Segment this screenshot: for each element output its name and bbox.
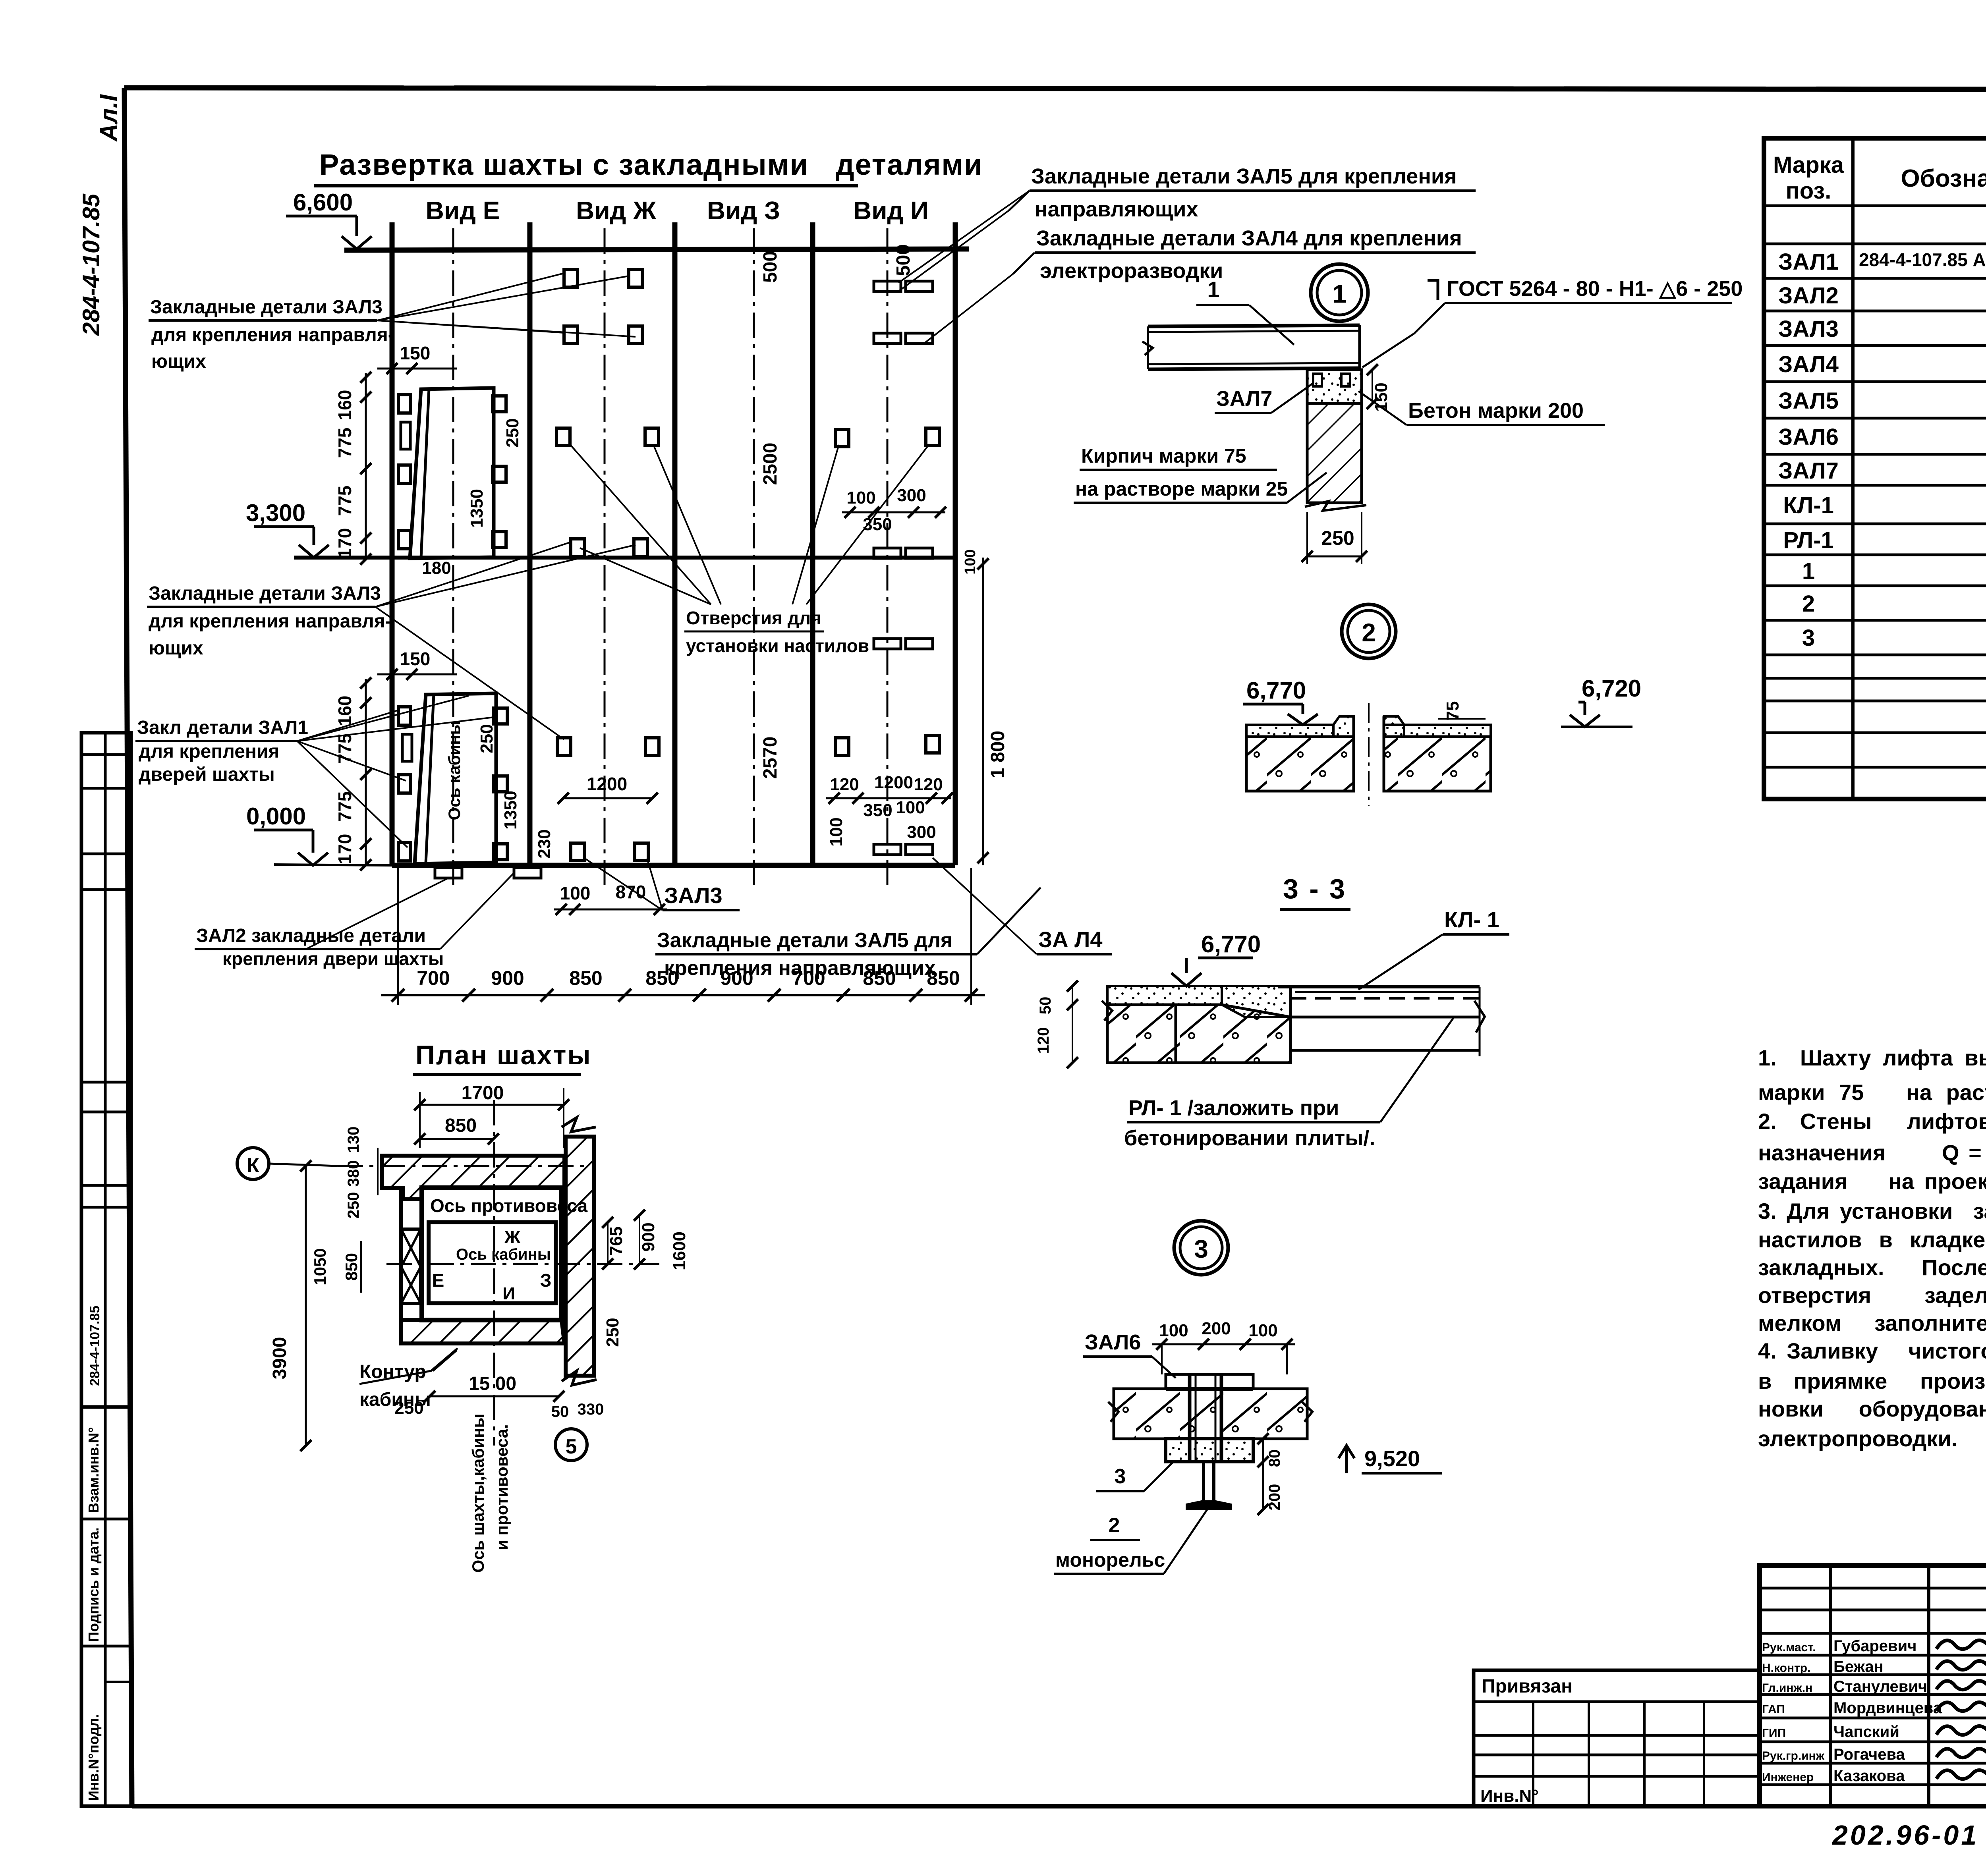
svg-text:150: 150 xyxy=(400,648,431,669)
I-beam monorail xyxy=(1202,1462,1205,1501)
svg-text:2: 2 xyxy=(1802,591,1815,617)
sheet frame xyxy=(124,88,1986,90)
plan dim 3900 xyxy=(305,1166,307,1446)
view E lower door xyxy=(415,693,496,864)
svg-text:ЗАЛ3: ЗАЛ3 xyxy=(664,883,723,908)
svg-text:130: 130 xyxy=(345,1127,362,1153)
svg-text:3: 3 xyxy=(1115,1465,1126,1488)
svg-text:850: 850 xyxy=(342,1253,361,1281)
svg-text:бетонировании плиты/.: бетонировании плиты/. xyxy=(1124,1126,1375,1150)
svg-text:6,770: 6,770 xyxy=(1201,931,1261,957)
embed detail squares: view E upper door (ЗАЛ1/ЗАЛ2) xyxy=(410,388,494,558)
svg-text:75: 75 xyxy=(1443,701,1462,721)
svg-text:870: 870 xyxy=(616,882,646,902)
svg-text:Рук.гр.инж: Рук.гр.инж xyxy=(1762,1749,1825,1762)
plan axes xyxy=(338,1165,584,1167)
svg-text:Ж: Ж xyxy=(504,1228,520,1247)
svg-text:для крепления направля-: для крепления направля- xyxy=(149,611,392,632)
svg-text:Вид З: Вид З xyxy=(707,196,780,225)
svg-text:План шахты: План шахты xyxy=(415,1040,592,1070)
svg-text:3900: 3900 xyxy=(269,1337,290,1380)
counterweight cross box xyxy=(401,1229,421,1303)
svg-text:Ось кабины: Ось кабины xyxy=(445,721,464,820)
svg-text:2: 2 xyxy=(1362,618,1376,647)
svg-text:1: 1 xyxy=(1802,558,1815,584)
detail 3 slab xyxy=(1114,1389,1307,1439)
svg-text:900: 900 xyxy=(639,1222,658,1251)
svg-text:Подпись и дата.: Подпись и дата. xyxy=(85,1527,102,1642)
svg-text:1700: 1700 xyxy=(462,1083,504,1104)
svg-text:6,770: 6,770 xyxy=(1246,677,1306,704)
svg-text:200: 200 xyxy=(1266,1484,1283,1511)
svg-text:ЗАЛ5: ЗАЛ5 xyxy=(1778,388,1839,414)
svg-text:2: 2 xyxy=(1109,1514,1120,1537)
svg-text:775: 775 xyxy=(334,428,355,458)
pipe through slab xyxy=(1352,716,1355,791)
svg-text:6,600: 6,600 xyxy=(293,189,353,216)
left dim column lower xyxy=(365,679,367,866)
svg-text:ГАП: ГАП xyxy=(1762,1703,1785,1716)
plan left dims xyxy=(377,1148,379,1195)
svg-text:Бетон марки 200: Бетон марки 200 xyxy=(1408,399,1584,423)
signatures squiggles xyxy=(1936,1640,1986,1649)
svg-text:300: 300 xyxy=(897,486,926,505)
section: hatch cover КЛ-1 right xyxy=(1278,985,1480,988)
svg-text:кабины: кабины xyxy=(359,1389,431,1410)
svg-text:3 - 3: 3 - 3 xyxy=(1283,873,1347,904)
svg-text:ГОСТ 5264 - 80 - Н1- △6 - 250: ГОСТ 5264 - 80 - Н1- △6 - 250 xyxy=(1447,277,1743,301)
axis circle 5 xyxy=(555,1429,587,1461)
svg-text:и противовеса.: и противовеса. xyxy=(493,1424,511,1550)
svg-text:Отверстия для: Отверстия для xyxy=(686,608,821,628)
monorail support box xyxy=(1166,1439,1253,1462)
svg-text:дверей шахты: дверей шахты xyxy=(139,764,275,785)
svg-text:Гл.инж.н: Гл.инж.н xyxy=(1762,1681,1812,1695)
svg-text:Закладные детали ЗАЛ5 для кр: Закладные детали ЗАЛ5 для крепления xyxy=(1031,164,1457,188)
svg-text:2. Стены лифтовой шахты/ли: 2. Стены лифтовой шахты/лифт грузовой об… xyxy=(1758,1109,1986,1134)
left margin lower strip (Взам.инв., Подпись и дата, Инв.подл.) xyxy=(81,1407,131,1806)
detail 3 circle xyxy=(1174,1221,1228,1275)
svg-text:500: 500 xyxy=(893,244,914,276)
svg-text:160: 160 xyxy=(334,696,355,726)
svg-text:ющих: ющих xyxy=(149,638,203,659)
svg-text:КЛ-1: КЛ-1 xyxy=(1783,492,1834,518)
svg-text:электроразводки: электроразводки xyxy=(1040,259,1223,283)
svg-text:3. Для установки закладных д: 3. Для установки закладных деталей ЗАЛ1 … xyxy=(1758,1199,1986,1224)
plan walls hatch xyxy=(382,1156,564,1199)
svg-text:1: 1 xyxy=(1332,280,1347,308)
svg-text:170: 170 xyxy=(334,528,355,559)
svg-text:Бежан: Бежан xyxy=(1833,1658,1884,1675)
anchor rods xyxy=(1188,1374,1192,1461)
svg-text:ЗАЛ6: ЗАЛ6 xyxy=(1778,424,1839,450)
svg-text:765: 765 xyxy=(607,1226,626,1255)
svg-text:120: 120 xyxy=(1035,1027,1052,1054)
svg-text:Закладные детали ЗАЛ4 для кр: Закладные детали ЗАЛ4 для крепления xyxy=(1036,226,1462,250)
svg-text:Контур: Контур xyxy=(359,1361,426,1382)
svg-text:100: 100 xyxy=(896,798,925,817)
svg-text:700: 700 xyxy=(417,967,450,989)
svg-text:Ось шахты,кабины: Ось шахты,кабины xyxy=(469,1414,487,1573)
svg-text:284-4-107.85: 284-4-107.85 xyxy=(78,193,104,336)
cabin contour rect xyxy=(429,1222,556,1303)
svg-text:2570: 2570 xyxy=(760,737,781,779)
svg-text:300: 300 xyxy=(907,822,936,842)
svg-text:РЛ-1: РЛ-1 xyxy=(1783,527,1833,553)
svg-text:назначения Q = 500кг / ра: назначения Q = 500кг / разработаны на ос… xyxy=(1758,1140,1986,1165)
svg-text:850: 850 xyxy=(569,967,602,989)
svg-text:284-4-107.85 АС1.из -12,00: 284-4-107.85 АС1.из -12,00 xyxy=(1859,249,1986,270)
svg-text:установки настилов: установки настилов xyxy=(686,635,869,656)
svg-text:100: 100 xyxy=(846,488,875,508)
svg-text:100: 100 xyxy=(827,817,846,846)
wall line x=987 xyxy=(390,222,395,865)
svg-text:3: 3 xyxy=(1802,625,1815,651)
svg-text:Закладные детали ЗАЛ3: Закладные детали ЗАЛ3 xyxy=(150,297,383,318)
specification table grid xyxy=(1764,138,1986,799)
svg-text:160: 160 xyxy=(334,390,355,421)
svg-text:3: 3 xyxy=(1194,1235,1208,1263)
plan outer boundary xyxy=(399,1188,403,1343)
left dim column upper xyxy=(365,373,367,560)
svg-text:Вид Ж: Вид Ж xyxy=(576,196,657,225)
svg-text:Взам.инв.N°: Взам.инв.N° xyxy=(85,1427,102,1513)
wall line x=1699 xyxy=(672,222,678,865)
plan right dims xyxy=(607,1222,609,1264)
svg-text:ЗАЛ2 закладные детали: ЗАЛ2 закладные детали xyxy=(196,925,426,946)
detail 1 wall below xyxy=(1307,370,1362,403)
svg-text:электропроводки.: электропроводки. xyxy=(1758,1426,1957,1451)
svg-text:Закладные детали ЗАЛ5 для: Закладные детали ЗАЛ5 для xyxy=(657,929,952,952)
svg-text:9,520: 9,520 xyxy=(1364,1446,1420,1471)
svg-text:КЛ- 1: КЛ- 1 xyxy=(1444,907,1499,932)
svg-text:Губаревич: Губаревич xyxy=(1833,1637,1916,1655)
svg-text:ЗАЛ6: ЗАЛ6 xyxy=(1085,1330,1141,1354)
svg-text:100: 100 xyxy=(560,883,591,903)
leaders ЗАЛ3 upper xyxy=(377,273,564,320)
svg-text:Вид И: Вид И xyxy=(853,196,929,225)
svg-text:задания на проектирование: задания на проектирование альбома АТ- 6.… xyxy=(1758,1169,1986,1194)
svg-text:100: 100 xyxy=(962,549,979,574)
svg-text:отверстия заделать бето: отверстия заделать бетоном марки 200 на xyxy=(1758,1283,1986,1308)
svg-text:Ось противовеса: Ось противовеса xyxy=(430,1195,588,1216)
svg-text:2500: 2500 xyxy=(760,443,781,485)
svg-text:монорельс: монорельс xyxy=(1055,1549,1165,1571)
wall line x=2405 xyxy=(953,222,958,865)
svg-text:закладных. После монтажа: закладных. После монтажа закладных детал… xyxy=(1758,1255,1986,1280)
svg-text:250: 250 xyxy=(503,418,522,447)
svg-text:для крепления: для крепления xyxy=(139,741,279,762)
svg-text:Марка: Марка xyxy=(1773,152,1844,178)
svg-text:ЗАЛ2: ЗАЛ2 xyxy=(1778,283,1839,309)
svg-text:Чапский: Чапский xyxy=(1833,1723,1899,1741)
svg-text:направляющих: направляющих xyxy=(1035,197,1198,221)
svg-text:Станулевич: Станулевич xyxy=(1833,1678,1927,1695)
svg-text:100: 100 xyxy=(1248,1321,1277,1340)
view И horizontal anchors ЗАЛ5/ЗАЛ4 xyxy=(874,281,901,291)
section: machine room slab left xyxy=(1107,986,1222,1005)
svg-text:250: 250 xyxy=(603,1318,622,1347)
view Ж squares ЗАЛ3 xyxy=(564,270,578,287)
svg-text:Ось кабины: Ось кабины xyxy=(456,1246,551,1263)
svg-text:Привязан: Привязан xyxy=(1482,1676,1573,1697)
signature table xyxy=(1829,1565,1832,1806)
wall line x=1334 xyxy=(527,222,533,865)
svg-text:850: 850 xyxy=(445,1115,477,1136)
svg-text:Ал.I: Ал.I xyxy=(95,94,123,142)
svg-text:0,000: 0,000 xyxy=(246,803,306,830)
svg-text:крепления двери шахты: крепления двери шахты xyxy=(222,948,444,969)
svg-text:230: 230 xyxy=(535,829,554,858)
svg-text:100: 100 xyxy=(1159,1321,1188,1340)
svg-text:Развертка шахты с закладным: Развертка шахты с закладными деталями xyxy=(319,148,983,181)
svg-text:ЗА Л4: ЗА Л4 xyxy=(1038,927,1103,952)
svg-text:250: 250 xyxy=(477,724,496,753)
svg-text:ЗАЛ4: ЗАЛ4 xyxy=(1778,351,1839,377)
svg-text:Рук.маст.: Рук.маст. xyxy=(1762,1641,1816,1654)
svg-text:200: 200 xyxy=(1202,1319,1231,1338)
svg-text:50: 50 xyxy=(1037,997,1054,1015)
svg-text:5: 5 xyxy=(566,1435,577,1458)
svg-text:250: 250 xyxy=(345,1192,362,1219)
привязан block xyxy=(1474,1670,1760,1806)
svg-text:РЛ- 1 /заложить при: РЛ- 1 /заложить при xyxy=(1128,1096,1339,1120)
svg-text:для крепления направля-: для крепления направля- xyxy=(151,324,394,345)
embed plate ЗАЛ6 above slab xyxy=(1166,1374,1253,1389)
svg-text:на растворе марки 25: на растворе марки 25 xyxy=(1075,478,1288,500)
svg-text:Казакова: Казакова xyxy=(1833,1767,1905,1785)
svg-text:Закл детали ЗАЛ1: Закл детали ЗАЛ1 xyxy=(137,717,308,738)
svg-text:Мордвинцева: Мордвинцева xyxy=(1833,1699,1942,1717)
svg-text:1350: 1350 xyxy=(501,791,520,830)
svg-text:284-4-107.85: 284-4-107.85 xyxy=(87,1306,102,1386)
svg-text:Инженер: Инженер xyxy=(1762,1771,1814,1784)
svg-text:ющих: ющих xyxy=(151,351,206,372)
svg-text:З: З xyxy=(540,1270,552,1291)
detail 1 circle xyxy=(1311,264,1368,321)
dim 1800 right xyxy=(982,558,984,865)
svg-text:марки 75 на растворе марк: марки 75 на растворе марки 25. xyxy=(1758,1080,1986,1105)
svg-text:К: К xyxy=(247,1154,259,1177)
svg-text:Е: Е xyxy=(432,1270,444,1291)
detail 2 floor section xyxy=(1246,725,1333,737)
svg-text:Обозначение: Обозначение xyxy=(1901,165,1986,192)
svg-text:3,300: 3,300 xyxy=(246,500,305,526)
title block outer xyxy=(1760,1565,1986,1806)
svg-text:Инв.N°подл.: Инв.N°подл. xyxy=(85,1714,102,1801)
svg-text:новки оборудования лифта: новки оборудования лифта и прокладке тру… xyxy=(1758,1396,1986,1421)
svg-text:775: 775 xyxy=(334,486,355,516)
svg-text:1050: 1050 xyxy=(311,1248,329,1285)
svg-text:ГИП: ГИП xyxy=(1762,1727,1786,1740)
svg-text:Рогачева: Рогачева xyxy=(1833,1746,1905,1763)
svg-text:1. Шахту лифта выкладывать: 1. Шахту лифта выкладывать из полнотелог… xyxy=(1758,1045,1986,1070)
bottom dimension row xyxy=(381,994,985,996)
svg-text:330: 330 xyxy=(578,1401,604,1418)
svg-text:775: 775 xyxy=(334,791,355,822)
detail 1 slab xyxy=(1148,325,1360,326)
svg-text:202.96-01: 202.96-01 xyxy=(1831,1820,1979,1851)
svg-text:1200: 1200 xyxy=(587,774,627,794)
svg-text:ЗАЛ1: ЗАЛ1 xyxy=(1778,249,1839,275)
svg-text:крепления направляющих: крепления направляющих xyxy=(664,957,936,980)
svg-text:настилов в кладке стен о: настилов в кладке стен оставить гнезда в… xyxy=(1758,1227,1986,1252)
svg-text:6,720: 6,720 xyxy=(1582,675,1641,702)
axis circle K xyxy=(237,1148,269,1179)
svg-text:120: 120 xyxy=(914,775,943,794)
svg-text:ЗАЛ3: ЗАЛ3 xyxy=(1778,316,1839,342)
svg-text:380: 380 xyxy=(345,1160,362,1187)
svg-text:ЗАЛ7: ЗАЛ7 xyxy=(1216,387,1272,411)
svg-text:мелком заполнителе.: мелком заполнителе. xyxy=(1758,1310,1986,1336)
svg-text:поз.: поз. xyxy=(1786,178,1831,204)
svg-text:150: 150 xyxy=(400,343,431,363)
svg-text:250: 250 xyxy=(1321,527,1354,549)
svg-text:500: 500 xyxy=(760,251,781,283)
svg-text:ЗАЛ7: ЗАЛ7 xyxy=(1778,458,1839,484)
svg-text:1350: 1350 xyxy=(467,489,487,528)
svg-text:в приямке производить при: в приямке производить при монтаже после … xyxy=(1758,1368,1986,1393)
wall line x=2046 xyxy=(810,222,815,865)
svg-text:170: 170 xyxy=(334,834,355,865)
axis dash-dot lines xyxy=(452,228,454,886)
svg-text:1200: 1200 xyxy=(874,773,913,792)
detail 2 circle xyxy=(1342,604,1396,658)
svg-text:900: 900 xyxy=(491,967,524,989)
svg-text:1: 1 xyxy=(1207,277,1219,302)
left margin upper strip xyxy=(81,733,131,1407)
svg-text:350: 350 xyxy=(863,801,892,820)
svg-text:4. Заливку чистого пола в: 4. Заливку чистого пола в машинном помещ… xyxy=(1758,1338,1986,1363)
door bottom anchors ЗАЛ2 xyxy=(435,868,462,878)
svg-text:Закладные детали ЗАЛ3: Закладные детали ЗАЛ3 xyxy=(149,583,381,604)
leaders ЗАЛ5/ЗАЛ4 top xyxy=(1009,191,1030,210)
svg-text:Н.контр.: Н.контр. xyxy=(1762,1662,1810,1675)
svg-text:1 800: 1 800 xyxy=(987,731,1008,778)
plan inner shaft rect xyxy=(422,1188,562,1320)
svg-text:15 00: 15 00 xyxy=(469,1373,516,1394)
svg-text:120: 120 xyxy=(830,775,859,794)
svg-text:50: 50 xyxy=(551,1403,569,1421)
svg-text:180: 180 xyxy=(422,558,451,578)
svg-text:Кирпич марки 75: Кирпич марки 75 xyxy=(1081,445,1246,467)
svg-text:Инв.N°: Инв.N° xyxy=(1480,1786,1539,1806)
svg-text:Вид Е: Вид Е xyxy=(426,196,500,225)
development outline xyxy=(344,249,969,250)
svg-text:И: И xyxy=(502,1284,515,1303)
svg-text:1600: 1600 xyxy=(670,1231,689,1270)
